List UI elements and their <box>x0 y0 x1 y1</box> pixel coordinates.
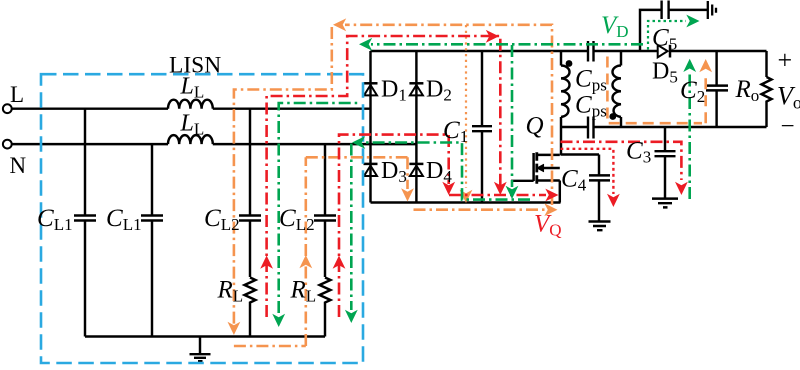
svg-text:Q: Q <box>526 113 544 140</box>
svg-text:LL: LL <box>180 111 205 139</box>
svg-text:N: N <box>10 153 27 178</box>
svg-text:Ro: Ro <box>735 76 760 105</box>
svg-text:RL: RL <box>290 277 317 306</box>
svg-text:CL2: CL2 <box>279 205 315 234</box>
svg-text:L: L <box>10 82 24 107</box>
svg-text:+: + <box>778 46 793 75</box>
svg-text:LISN: LISN <box>169 53 221 79</box>
svg-text:C3: C3 <box>626 138 651 167</box>
svg-text:D1: D1 <box>381 77 407 105</box>
svg-text:VD: VD <box>601 12 629 41</box>
svg-text:C5: C5 <box>652 25 677 54</box>
svg-text:Cps: Cps <box>575 66 607 95</box>
svg-text:D2: D2 <box>426 77 452 105</box>
svg-text:−: − <box>781 113 795 140</box>
svg-text:CL1: CL1 <box>106 205 142 234</box>
svg-text:D3: D3 <box>381 158 407 186</box>
svg-text:D5: D5 <box>652 59 678 87</box>
svg-text:Vo: Vo <box>777 82 800 113</box>
svg-text:VQ: VQ <box>534 211 562 240</box>
svg-text:C4: C4 <box>561 166 587 195</box>
svg-text:RL: RL <box>217 277 244 306</box>
svg-text:C1: C1 <box>443 117 468 146</box>
svg-text:CL1: CL1 <box>37 205 73 234</box>
svg-text:Cps: Cps <box>575 92 607 121</box>
svg-text:C2: C2 <box>680 77 705 106</box>
